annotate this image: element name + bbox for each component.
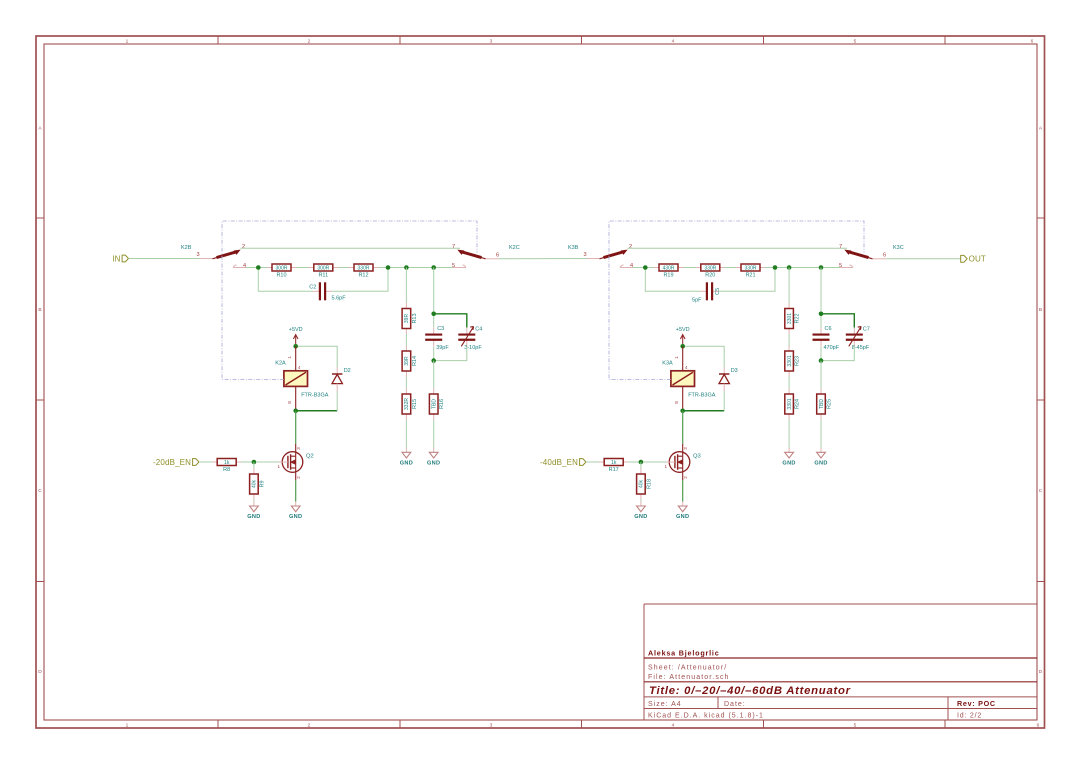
diode D2 <box>332 368 351 392</box>
svg-text:3301: 3301 <box>787 313 793 324</box>
svg-text:D: D <box>38 669 42 675</box>
svg-text:R16: R16 <box>439 399 445 409</box>
svg-text:2: 2 <box>242 244 245 250</box>
svg-text:R17: R17 <box>609 467 619 473</box>
svg-text:Id: 2/2: Id: 2/2 <box>957 712 982 719</box>
border column ticks bottom <box>218 720 945 728</box>
svg-text:C: C <box>1039 488 1043 494</box>
svg-text:GND: GND <box>814 461 827 467</box>
wire cap top link <box>434 314 467 328</box>
svg-text:1: 1 <box>287 356 292 359</box>
svg-text:5: 5 <box>452 263 455 269</box>
resistor R24 <box>785 389 801 420</box>
svg-text:TBD: TBD <box>819 399 825 409</box>
wire relay to diode bottom <box>683 410 725 412</box>
resistor R22 <box>785 303 801 334</box>
relay switch K2C <box>452 244 520 269</box>
wire diode anode drop <box>336 391 338 411</box>
ground <box>427 448 440 467</box>
wire chain link 1 <box>788 334 790 346</box>
svg-text:R14: R14 <box>412 356 418 366</box>
wire between attenuator stages <box>499 258 587 260</box>
wire cap branch to ground <box>820 420 822 448</box>
wire cap branch drop <box>433 268 435 314</box>
transistor Q2 <box>277 444 313 481</box>
svg-text:5pF: 5pF <box>692 298 702 304</box>
svg-text:470pF: 470pF <box>824 345 840 351</box>
svg-text:1: 1 <box>126 723 129 729</box>
svg-text:3301: 3301 <box>787 398 793 409</box>
wire chain drop <box>405 268 407 304</box>
ground <box>247 502 260 521</box>
svg-text:KiCad E.D.A. kicad (5.1.8)-1: KiCad E.D.A. kicad (5.1.8)-1 <box>648 712 764 719</box>
svg-text:4: 4 <box>672 723 675 729</box>
svg-text:40k: 40k <box>252 479 258 488</box>
border row ticks right <box>1037 218 1045 582</box>
svg-text:3: 3 <box>490 723 493 729</box>
wire input to switch pin 3 <box>586 258 588 260</box>
svg-text:K2B: K2B <box>181 245 192 251</box>
svg-text:TBD: TBD <box>432 399 438 409</box>
svg-text:8: 8 <box>287 401 292 404</box>
svg-text:C2: C2 <box>309 284 316 290</box>
border column numbers <box>126 39 1040 729</box>
svg-text:K3A: K3A <box>662 361 673 367</box>
resistor R16 <box>429 389 445 420</box>
wire divider drop <box>253 462 255 469</box>
svg-text:C: C <box>38 488 42 494</box>
svg-text:R25: R25 <box>827 399 833 409</box>
wire chain link 1 <box>405 334 407 346</box>
capacitor C5 <box>692 282 721 303</box>
svg-text:B: B <box>38 307 41 313</box>
node junction bypass return <box>386 265 391 270</box>
wire enable to gate <box>586 461 666 463</box>
svg-text:7: 7 <box>452 244 455 250</box>
resistor R21 <box>736 264 765 279</box>
hierarchical label -20dB_EN <box>153 458 199 467</box>
border column ticks top <box>218 36 945 44</box>
svg-text:+5VD: +5VD <box>289 327 303 333</box>
resistor R14 <box>402 346 418 377</box>
border row ticks left <box>36 218 44 582</box>
node junction cap bottom <box>431 358 436 363</box>
relay coil K2A <box>275 346 328 411</box>
svg-text:Aleksa Bjelogrlic: Aleksa Bjelogrlic <box>648 649 720 658</box>
node junction bypass return <box>773 265 778 270</box>
resistor R25 <box>817 389 833 420</box>
svg-text:K2A: K2A <box>275 361 286 367</box>
svg-text:Rev: POC: Rev: POC <box>957 699 996 708</box>
wire source to ground <box>295 480 297 501</box>
svg-text:3: 3 <box>196 252 199 258</box>
ground <box>634 502 647 521</box>
svg-text:C7: C7 <box>863 327 870 333</box>
svg-text:7: 7 <box>839 244 842 250</box>
wire bypass loop left <box>258 268 313 292</box>
wire chain link 2 <box>788 377 790 389</box>
svg-text:B: B <box>1039 307 1042 313</box>
svg-text:300R: 300R <box>317 266 329 272</box>
svg-text:GND: GND <box>676 514 689 520</box>
hierarchical label IN <box>112 254 128 263</box>
svg-text:2: 2 <box>308 723 311 729</box>
wire cap branch to ground <box>433 420 435 448</box>
svg-text:3: 3 <box>583 252 586 258</box>
wire cap branch to resistor <box>433 361 435 389</box>
svg-text:OUT: OUT <box>969 255 986 264</box>
node junction relay bottom <box>293 409 298 414</box>
resistor R9 <box>250 469 266 500</box>
svg-text:Sheet: /Attenuator/: Sheet: /Attenuator/ <box>648 665 727 672</box>
svg-text:Date:: Date: <box>724 701 746 708</box>
svg-text:-20dB_EN: -20dB_EN <box>153 458 191 467</box>
resistor R11 <box>309 264 338 279</box>
wire chain to ground <box>405 420 407 448</box>
svg-text:C6: C6 <box>825 326 832 332</box>
trimmer capacitor C4 <box>458 327 482 351</box>
node junction shunt chain <box>404 265 409 270</box>
svg-text:R8: R8 <box>223 467 230 473</box>
svg-text:R21: R21 <box>745 273 755 279</box>
svg-text:4: 4 <box>630 263 633 269</box>
resistor R10 <box>267 264 296 279</box>
power +5VD <box>289 327 303 346</box>
wire cap bottom link <box>821 347 854 361</box>
svg-text:R18: R18 <box>646 479 652 489</box>
capacitor C2 <box>309 282 346 301</box>
resistor R8 <box>212 459 241 474</box>
svg-text:6: 6 <box>1031 39 1034 45</box>
svg-text:5: 5 <box>854 39 857 45</box>
svg-text:GND: GND <box>289 514 302 520</box>
svg-text:330R: 330R <box>745 266 757 272</box>
ground <box>289 502 302 521</box>
svg-text:39R: 39R <box>404 356 410 366</box>
svg-text:39pF: 39pF <box>436 345 449 351</box>
wire resistor chain 4 to 5 <box>246 267 453 269</box>
svg-text:C5: C5 <box>715 288 721 295</box>
svg-text:K2C: K2C <box>509 245 520 251</box>
wire bypass loop right <box>332 268 388 292</box>
svg-text:8: 8 <box>674 401 679 404</box>
svg-text:GND: GND <box>634 514 647 520</box>
hierarchical label -40dB_EN <box>540 458 586 467</box>
wire chain link 2 <box>405 377 407 389</box>
node junction gate divider <box>639 460 644 465</box>
node junction relay bottom <box>680 409 685 414</box>
resistor R20 <box>696 264 725 279</box>
wire cap branch to resistor <box>820 361 822 389</box>
svg-text:R12: R12 <box>358 273 368 279</box>
hierarchical label OUT <box>961 255 986 264</box>
svg-text:332R: 332R <box>404 398 410 410</box>
svg-text:R19: R19 <box>663 273 673 279</box>
wire divider to ground <box>253 500 255 502</box>
node junction cap branch <box>819 265 824 270</box>
resistor R23 <box>785 346 801 377</box>
wire chain drop <box>788 268 790 304</box>
svg-text:K3C: K3C <box>893 245 904 251</box>
svg-text:R9: R9 <box>259 480 265 487</box>
svg-text:R23: R23 <box>795 356 801 366</box>
svg-text:5: 5 <box>839 263 842 269</box>
svg-text:File: Attenuator.sch: File: Attenuator.sch <box>648 674 730 681</box>
capacitor C3 <box>425 314 449 361</box>
svg-text:5.6pF: 5.6pF <box>332 296 347 302</box>
wire cap bottom link <box>434 347 467 361</box>
resistor R12 <box>349 264 378 279</box>
wire enable to gate <box>199 461 279 463</box>
svg-text:3: 3 <box>490 39 493 45</box>
svg-text:R15: R15 <box>412 399 418 409</box>
svg-text:FTR-B3GA: FTR-B3GA <box>301 393 329 399</box>
wire divider drop <box>640 462 642 469</box>
svg-text:1: 1 <box>674 356 679 359</box>
svg-text:GND: GND <box>400 461 413 467</box>
svg-text:R13: R13 <box>412 313 418 323</box>
svg-text:D3: D3 <box>731 368 738 374</box>
resistor R18 <box>637 469 653 500</box>
node junction shunt chain <box>787 265 792 270</box>
svg-text:FTR-B3GA: FTR-B3GA <box>688 393 716 399</box>
trimmer capacitor C7 <box>846 327 870 351</box>
wire relay to transistor drain <box>682 411 684 444</box>
svg-text:3301: 3301 <box>787 355 793 366</box>
svg-text:IN: IN <box>112 254 120 263</box>
title block frame <box>644 604 1037 720</box>
svg-text:Title: 0/–20/–40/–60dB Attenua: Title: 0/–20/–40/–60dB Attenuator <box>649 685 851 697</box>
svg-text:1k: 1k <box>224 460 230 466</box>
wire source to ground <box>682 480 684 501</box>
wire power to diode <box>683 346 725 367</box>
wire power to diode <box>296 346 338 367</box>
svg-text:R24: R24 <box>795 399 801 409</box>
wire cap branch drop <box>820 268 822 314</box>
svg-text:C4: C4 <box>475 327 482 333</box>
svg-text:2: 2 <box>629 244 632 250</box>
svg-text:6: 6 <box>1037 723 1040 729</box>
node junction pin4 <box>256 265 261 270</box>
svg-text:R11: R11 <box>318 273 328 279</box>
node junction cap branch <box>431 265 436 270</box>
svg-text:K3B: K3B <box>568 245 579 251</box>
svg-text:+5VD: +5VD <box>676 327 690 333</box>
svg-text:1k: 1k <box>611 460 617 466</box>
resistor R15 <box>402 389 418 420</box>
svg-text:-40dB_EN: -40dB_EN <box>540 458 578 467</box>
wire chain to ground <box>788 420 790 448</box>
relay mechanical linkage dashed line <box>609 221 864 380</box>
svg-text:1: 1 <box>126 39 129 45</box>
node junction gate divider <box>252 460 257 465</box>
wire output <box>886 258 961 260</box>
resistor R19 <box>654 264 683 279</box>
capacitor C6 <box>813 314 840 361</box>
node junction power <box>680 344 685 349</box>
relay coil K3A <box>662 346 715 411</box>
svg-text:40k: 40k <box>639 479 645 488</box>
ground <box>400 448 413 467</box>
svg-text:R20: R20 <box>705 273 715 279</box>
svg-text:330R: 330R <box>704 266 716 272</box>
svg-text:6: 6 <box>496 253 499 259</box>
relay switch K3C <box>839 244 904 269</box>
node junction cap top <box>431 312 436 317</box>
svg-text:C3: C3 <box>437 326 444 332</box>
wire bypass loop right <box>719 268 775 292</box>
wire diode anode drop <box>723 391 725 411</box>
ground <box>782 448 795 467</box>
wire bypass loop left <box>645 268 700 292</box>
node junction cap top <box>819 312 824 317</box>
svg-text:R10: R10 <box>276 273 286 279</box>
svg-text:330R: 330R <box>358 266 370 272</box>
node junction pin4 <box>643 265 648 270</box>
svg-text:430R: 430R <box>663 266 675 272</box>
wire switch contact 2 to 7 <box>628 247 848 249</box>
svg-text:D: D <box>1039 669 1043 675</box>
node junction power <box>293 344 298 349</box>
border row letters <box>38 126 1043 676</box>
resistor R17 <box>599 459 628 474</box>
svg-text:Q3: Q3 <box>693 454 701 460</box>
wire resistor chain 4 to 5 <box>633 267 840 269</box>
ground <box>814 448 827 467</box>
wire switch contact 2 to 7 <box>241 247 461 249</box>
svg-text:300R: 300R <box>276 266 288 272</box>
svg-text:2: 2 <box>308 39 311 45</box>
ground <box>676 502 689 521</box>
svg-text:GND: GND <box>247 514 260 520</box>
power +5VD <box>676 327 690 346</box>
wire cap top link <box>821 314 854 328</box>
svg-text:39R: 39R <box>404 314 410 324</box>
wire relay to transistor drain <box>295 411 297 444</box>
svg-text:Size: A4: Size: A4 <box>648 701 682 708</box>
svg-text:5: 5 <box>854 723 857 729</box>
resistor R13 <box>402 303 418 334</box>
svg-text:GND: GND <box>782 461 795 467</box>
relay mechanical linkage dashed line <box>222 221 477 380</box>
svg-text:4: 4 <box>243 263 246 269</box>
svg-text:6: 6 <box>883 253 886 259</box>
node junction cap bottom <box>819 358 824 363</box>
svg-text:R22: R22 <box>795 313 801 323</box>
svg-text:Q2: Q2 <box>306 454 314 460</box>
svg-text:GND: GND <box>427 461 440 467</box>
transistor Q3 <box>664 444 700 481</box>
wire divider to ground <box>640 500 642 502</box>
svg-text:D2: D2 <box>344 368 351 374</box>
wire input to switch pin 3 <box>129 258 200 260</box>
relay switch K2B <box>181 244 246 269</box>
diode D3 <box>719 368 738 392</box>
svg-text:4: 4 <box>672 39 675 45</box>
wire relay to diode bottom <box>296 410 338 412</box>
relay switch K3B <box>568 244 633 269</box>
